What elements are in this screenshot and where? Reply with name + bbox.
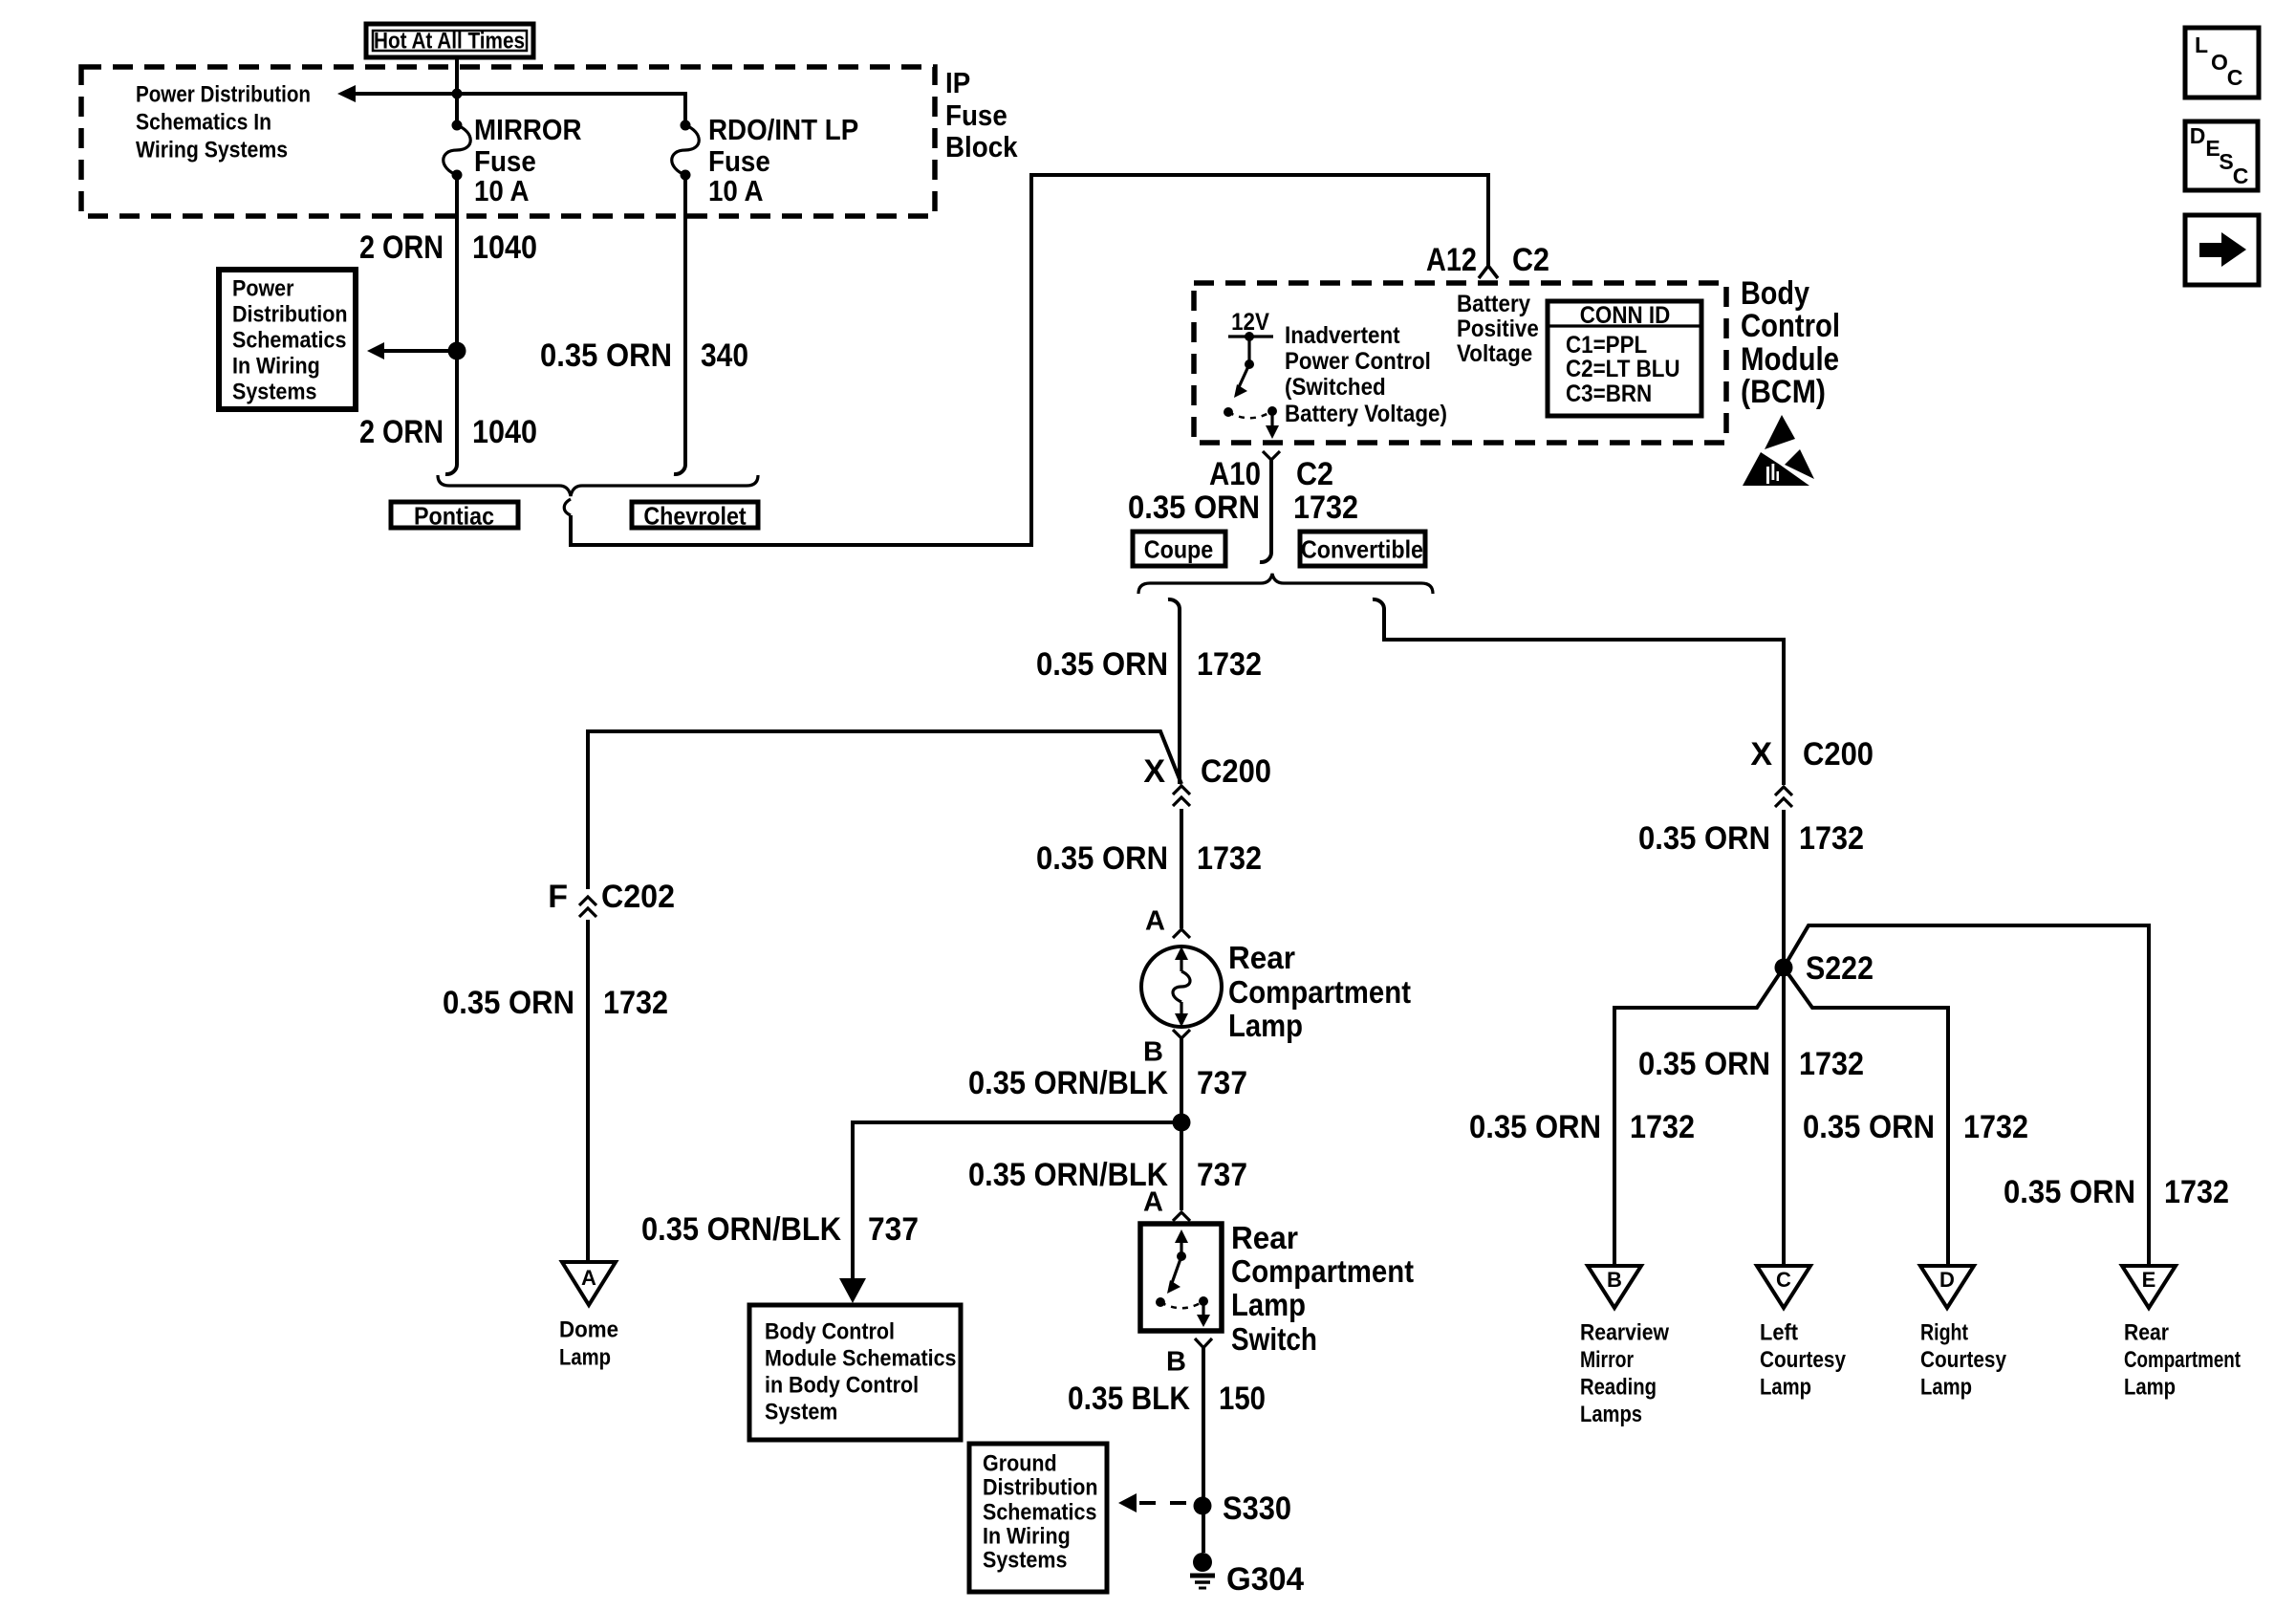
svg-text:Compartment: Compartment [2124, 1347, 2241, 1373]
svg-text:Body: Body [1741, 275, 1809, 312]
svg-text:Schematics: Schematics [232, 328, 346, 354]
svg-text:Systems: Systems [983, 1548, 1067, 1574]
svg-text:(BCM): (BCM) [1741, 374, 1826, 410]
svg-text:10 A: 10 A [474, 174, 530, 207]
svg-text:Lamp: Lamp [1760, 1375, 1811, 1401]
svg-text:Pontiac: Pontiac [414, 501, 494, 530]
svg-text:Hot At All Times: Hot At All Times [374, 29, 525, 54]
svg-text:C: C [2227, 65, 2243, 90]
svg-text:C2: C2 [1296, 456, 1333, 492]
svg-text:C2: C2 [1512, 242, 1549, 278]
svg-text:C2=LT BLU: C2=LT BLU [1566, 356, 1680, 382]
svg-text:1732: 1732 [1799, 820, 1864, 857]
svg-text:Distribution: Distribution [983, 1475, 1098, 1501]
svg-text:Fuse: Fuse [708, 144, 770, 178]
svg-text:Power: Power [232, 276, 294, 302]
svg-text:RDO/INT LP: RDO/INT LP [708, 113, 858, 146]
svg-text:Courtesy: Courtesy [1920, 1347, 2007, 1373]
svg-text:Module: Module [1741, 341, 1839, 378]
svg-text:Chevrolet: Chevrolet [643, 501, 747, 530]
svg-text:E: E [2142, 1268, 2156, 1292]
svg-text:Dome: Dome [559, 1317, 618, 1343]
svg-text:CONN ID: CONN ID [1580, 302, 1671, 329]
svg-text:Distribution: Distribution [232, 302, 348, 328]
svg-text:Rear: Rear [1228, 940, 1295, 975]
svg-text:Rear: Rear [1231, 1220, 1298, 1255]
svg-text:Rearview: Rearview [1580, 1320, 1669, 1346]
svg-text:Lamp: Lamp [1920, 1375, 1972, 1401]
svg-text:0.35 ORN/BLK: 0.35 ORN/BLK [968, 1157, 1168, 1193]
svg-text:B: B [1143, 1036, 1163, 1067]
svg-text:C200: C200 [1201, 753, 1271, 790]
svg-text:Inadvertent: Inadvertent [1285, 322, 1400, 349]
svg-text:Battery: Battery [1457, 291, 1530, 317]
svg-text:(Switched: (Switched [1285, 374, 1386, 401]
svg-text:1040: 1040 [472, 229, 537, 266]
svg-text:F: F [548, 879, 568, 915]
svg-text:Courtesy: Courtesy [1760, 1347, 1847, 1373]
svg-text:D: D [1939, 1268, 1955, 1292]
svg-text:X: X [1750, 736, 1772, 772]
svg-text:C3=BRN: C3=BRN [1566, 381, 1652, 407]
svg-text:Switch: Switch [1231, 1321, 1317, 1357]
svg-text:A: A [581, 1266, 596, 1290]
svg-text:X: X [1143, 753, 1165, 790]
svg-text:0.35 ORN: 0.35 ORN [1638, 1046, 1770, 1082]
svg-text:0.35 ORN: 0.35 ORN [1036, 646, 1168, 683]
svg-text:Rear: Rear [2124, 1320, 2169, 1346]
svg-text:C1=PPL: C1=PPL [1566, 332, 1647, 359]
svg-text:0.35 ORN: 0.35 ORN [443, 985, 574, 1021]
svg-text:Ground: Ground [983, 1451, 1057, 1477]
svg-text:In Wiring: In Wiring [983, 1524, 1071, 1550]
svg-text:0.35 ORN: 0.35 ORN [1036, 840, 1168, 877]
svg-text:O: O [2211, 50, 2228, 75]
svg-text:Body Control: Body Control [765, 1319, 895, 1345]
svg-text:Lamp: Lamp [2124, 1375, 2176, 1401]
svg-text:1732: 1732 [1630, 1109, 1695, 1145]
svg-text:0.35 ORN/BLK: 0.35 ORN/BLK [968, 1065, 1168, 1101]
svg-text:A: A [1143, 1186, 1163, 1217]
svg-text:Fuse: Fuse [474, 144, 536, 178]
svg-text:A10: A10 [1209, 456, 1261, 492]
svg-text:0.35 ORN: 0.35 ORN [540, 337, 672, 374]
svg-text:C202: C202 [601, 879, 675, 915]
svg-text:Schematics In: Schematics In [136, 110, 271, 136]
svg-text:Lamp: Lamp [1231, 1287, 1306, 1322]
svg-text:S222: S222 [1806, 950, 1874, 987]
svg-text:0.35 ORN: 0.35 ORN [1469, 1109, 1601, 1145]
svg-text:1732: 1732 [1799, 1046, 1864, 1082]
svg-text:737: 737 [868, 1211, 919, 1248]
svg-text:G304: G304 [1226, 1561, 1304, 1598]
svg-text:Lamp: Lamp [559, 1345, 611, 1371]
svg-text:S: S [2219, 149, 2233, 174]
svg-text:0.35 ORN: 0.35 ORN [1638, 820, 1770, 857]
svg-text:1732: 1732 [1293, 490, 1358, 526]
svg-text:0.35 ORN: 0.35 ORN [1803, 1109, 1935, 1145]
svg-text:0.35 ORN: 0.35 ORN [1128, 490, 1260, 526]
svg-text:2 ORN: 2 ORN [359, 229, 444, 266]
svg-text:1040: 1040 [472, 414, 537, 450]
svg-text:MIRROR: MIRROR [474, 113, 582, 146]
svg-text:1732: 1732 [1963, 1109, 2028, 1145]
svg-text:C200: C200 [1803, 736, 1874, 772]
svg-text:System: System [765, 1400, 837, 1425]
svg-text:0.35 ORN/BLK: 0.35 ORN/BLK [641, 1211, 841, 1248]
svg-text:12V: 12V [1231, 309, 1269, 336]
svg-text:737: 737 [1197, 1065, 1247, 1101]
svg-text:A: A [1145, 905, 1165, 936]
svg-text:IP: IP [945, 66, 970, 99]
svg-text:L: L [2195, 33, 2208, 57]
svg-text:Power Distribution: Power Distribution [136, 82, 311, 108]
svg-text:B: B [1166, 1346, 1186, 1377]
svg-text:Reading: Reading [1580, 1375, 1657, 1401]
svg-text:S330: S330 [1223, 1490, 1291, 1527]
svg-text:Mirror: Mirror [1580, 1347, 1634, 1373]
svg-text:340: 340 [701, 337, 748, 374]
svg-text:Voltage: Voltage [1457, 340, 1532, 367]
svg-text:Lamp: Lamp [1228, 1008, 1303, 1043]
svg-text:737: 737 [1197, 1157, 1247, 1193]
svg-text:Compartment: Compartment [1228, 974, 1411, 1010]
svg-text:Right: Right [1920, 1320, 1968, 1346]
svg-text:0.35 ORN: 0.35 ORN [2004, 1174, 2135, 1210]
svg-text:Convertible: Convertible [1301, 534, 1423, 563]
svg-text:in Body Control: in Body Control [765, 1373, 919, 1399]
svg-text:Schematics: Schematics [983, 1500, 1096, 1526]
svg-text:Coupe: Coupe [1144, 534, 1213, 563]
svg-text:Power Control: Power Control [1285, 348, 1431, 375]
svg-text:Positive: Positive [1457, 315, 1539, 342]
svg-text:A12: A12 [1426, 242, 1477, 278]
svg-text:1732: 1732 [1197, 646, 1262, 683]
svg-text:D: D [2190, 123, 2206, 148]
svg-text:In Wiring: In Wiring [232, 354, 320, 380]
svg-text:150: 150 [1219, 1381, 1266, 1417]
svg-text:Fuse: Fuse [945, 98, 1007, 132]
svg-text:B: B [1607, 1268, 1622, 1292]
svg-text:Systems: Systems [232, 380, 316, 405]
svg-text:Compartment: Compartment [1231, 1253, 1414, 1289]
svg-text:1732: 1732 [1197, 840, 1262, 877]
svg-text:Control: Control [1741, 308, 1840, 344]
svg-text:C: C [1776, 1268, 1791, 1292]
svg-text:Lamps: Lamps [1580, 1402, 1642, 1427]
svg-text:C: C [2233, 163, 2249, 188]
svg-text:2 ORN: 2 ORN [359, 414, 444, 450]
svg-text:1732: 1732 [603, 985, 668, 1021]
svg-text:Block: Block [945, 130, 1018, 163]
svg-text:1732: 1732 [2164, 1174, 2229, 1210]
svg-text:Left: Left [1760, 1320, 1798, 1346]
svg-text:Module Schematics: Module Schematics [765, 1346, 957, 1372]
svg-text:0.35 BLK: 0.35 BLK [1068, 1381, 1190, 1417]
svg-text:Battery Voltage): Battery Voltage) [1285, 401, 1447, 427]
svg-text:10 A: 10 A [708, 174, 764, 207]
svg-text:Wiring Systems: Wiring Systems [136, 138, 288, 163]
